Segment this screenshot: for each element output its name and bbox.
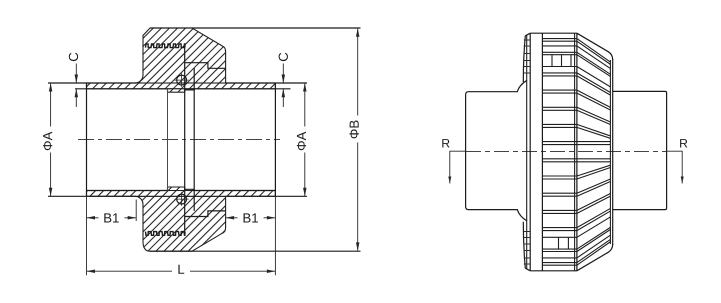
pipe bottom edge right + phiA extension [226, 195, 307, 197]
nut rim chamfer corners [525, 33, 530, 271]
nut bottom edge + phiB extension [150, 250, 361, 252]
pipe lower wall (hatched band) [87, 191, 276, 197]
right view centerline [466, 150, 667, 152]
right flange face [193, 68, 195, 211]
union nut lower cross-section (hatched) [135, 196, 226, 251]
dimension phiA left [50, 83, 52, 196]
nut bore step upper [185, 63, 226, 69]
pipe right end face [274, 83, 276, 196]
nut bore step lower [185, 211, 226, 217]
dimension R right [667, 151, 682, 183]
pipe inner wall top + C extension [75, 88, 168, 90]
nut right edge verticals [609, 60, 611, 244]
gasket lower [168, 187, 195, 191]
pipe upper wall (hatched band) [87, 83, 276, 89]
pipe bottom edge + phiA extension [48, 195, 136, 197]
nut front-side corner verticals [574, 33, 576, 270]
nut collar vertical [541, 33, 543, 271]
nut top edge + phiB extension [150, 27, 361, 29]
nut rim outer silhouette [523, 36, 525, 82]
gasket upper [168, 89, 195, 92]
nut bottom edge [530, 270, 577, 272]
nut top-right slope [577, 33, 613, 60]
right pipe outline [613, 91, 667, 209]
nut rim verticals [526, 35, 528, 269]
left pipe outline [466, 80, 527, 221]
dimension L [87, 270, 276, 272]
dimension B1 right [274, 196, 276, 275]
rim knurl marks [524, 40, 530, 264]
seal ring lower [177, 194, 187, 204]
dimension R left [450, 151, 466, 183]
dimension phiA right [304, 83, 306, 196]
groove cell dividers bottom [559, 237, 569, 249]
centerline left view [78, 139, 280, 141]
dimension B1 left [86, 196, 88, 275]
nut top edge [530, 32, 577, 34]
sleeve center vertical [184, 48, 186, 232]
dimension phiB [357, 29, 359, 251]
nut bottom-right slope [577, 244, 613, 271]
nut front face grooves [542, 39, 577, 266]
nut side face grooves [577, 39, 611, 266]
pipe top edge right + phiA extension [226, 82, 307, 84]
seal ring upper [177, 75, 187, 85]
thread zigzag upper [146, 44, 186, 48]
pipe top edge + phiA extension [48, 82, 136, 84]
pipe left end face [86, 83, 88, 196]
pipe inner wall bottom [87, 190, 168, 192]
dimension C right [282, 64, 284, 108]
dimension C left [75, 64, 77, 108]
union nut upper cross-section (hatched) [135, 28, 226, 83]
left pipe inner end face [167, 89, 169, 191]
groove cell dividers top [552, 55, 571, 67]
thread zigzag lower [146, 232, 186, 236]
